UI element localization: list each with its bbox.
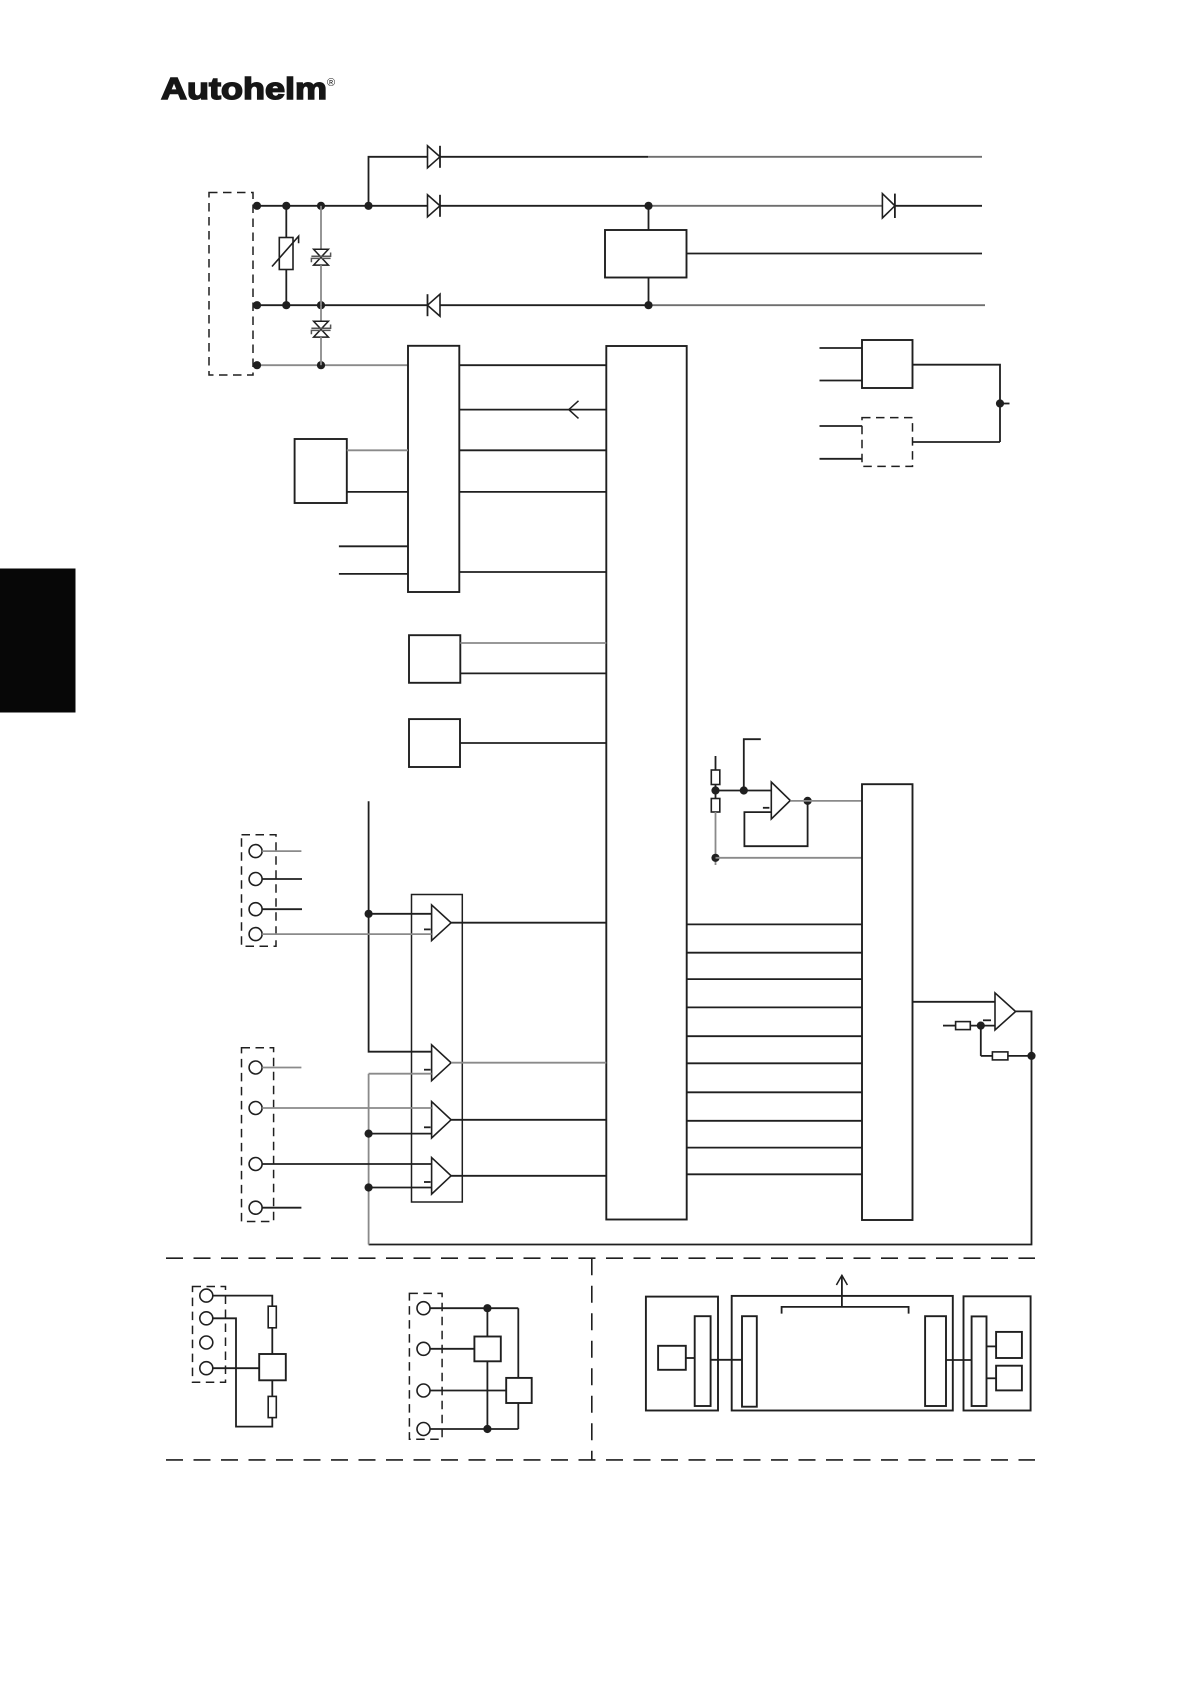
IC U2 interface block [408,346,459,592]
wire divider to A1 [716,790,772,792]
wire R6 loop to J4-2 [213,1318,272,1426]
node V2 dot b [365,1183,373,1191]
wire J3-3 to B4 [262,1163,432,1165]
node rail dot [711,854,719,862]
label A1 minus [763,807,770,809]
wire A2 output down [369,1011,1032,1244]
separator top (dashed) [166,1257,1035,1259]
wire B3 output [451,1119,606,1121]
box Y1 clock [409,635,460,683]
buffer B3 [432,1102,452,1138]
bracket drive span [782,1307,909,1314]
box M3 inner coil [972,1316,987,1406]
wire A1 feedback [744,801,807,846]
resistor R1 [711,770,720,785]
label B3 minus [424,1126,431,1128]
node J5 bottom dot [483,1425,491,1433]
wire B4 inv input [369,1187,432,1189]
wire row3 rail [257,304,985,306]
IC U5 driver block [862,784,913,1220]
box U4 (dashed, optional) [862,418,913,467]
wire rail to U5 [716,857,863,859]
pin J5-4 [417,1423,430,1436]
node V1 dot [365,910,373,918]
suppressor Z1 [311,206,330,305]
wire M3 int a [987,1345,997,1347]
wire B7 down [517,1403,519,1429]
wire J4-4 to B5 [213,1367,259,1369]
node row4 zener dot [317,361,325,369]
svg-text:Autohelm: Autohelm [161,71,327,106]
pin J5-1 [417,1302,430,1315]
wire R4 to output [1008,1055,1032,1057]
wire B4 output [451,1175,606,1177]
wire R1 top stub [715,756,717,770]
resistor R5 [268,1306,276,1328]
wire J2-3 stub [262,908,302,910]
wire R1-R2 [715,785,717,799]
comparator A2 [995,993,1016,1030]
connector J1 (power input, dashed) [209,193,253,376]
connector J3 (dashed) [242,1048,274,1222]
box Y2 [409,719,460,767]
wire U4 in b [820,458,863,460]
box M1 inner square [658,1346,686,1370]
wire K1 bottom [648,278,650,306]
wire R3 to A2 [970,1025,995,1027]
box M3 gear unit [964,1296,1031,1410]
wire down to B6 [486,1308,488,1336]
label B1 minus [424,928,431,930]
label B2 minus [424,1069,431,1071]
wire Y1 a [460,642,606,644]
wire J5-4 bottom [430,1428,518,1430]
connector J4 (dashed) [193,1287,226,1383]
black side tab [0,569,76,713]
wire to R4 [981,1055,993,1057]
wire B3 inv input [369,1133,432,1135]
Autohelm logo [161,71,335,106]
pin J4-1 [200,1289,213,1302]
wire M1 to M2 [711,1359,742,1361]
buffer B4 [432,1158,452,1195]
node row3 dots [253,301,653,309]
wire J5-2 to B6 [430,1348,474,1350]
crystal X1 [295,439,347,503]
node divider dot [711,786,719,794]
box B5 sensor [259,1354,286,1380]
buffer B2 [432,1045,452,1081]
wire A2 inv input [943,1025,956,1027]
label B4 minus [424,1181,431,1183]
wire stub NMEA b [339,573,408,575]
wire U3 in a [820,347,863,349]
diode D1 [428,146,441,168]
suppressor Z2 [311,305,330,365]
bus U1-U5 [687,924,862,1174]
wire U2-U1 b with arrow [459,401,606,419]
box M1 clutch unit [646,1297,718,1411]
wire J3-2 to B3 [262,1107,432,1109]
wire Y2 out [460,742,606,744]
wire J5-3 to B7 [430,1390,506,1392]
wire stub NMEA a [339,545,408,547]
pin J4-2 [200,1312,213,1325]
wire M2 to M3 [946,1359,972,1361]
pin J5-2 [417,1342,430,1355]
svg-text:®: ® [327,77,335,89]
node A1 input dot [740,786,748,794]
wire K1 top [648,206,650,230]
wire X1 b [347,491,408,493]
wire J2-1 stub [262,850,301,852]
wire U2-U1 e [459,571,606,573]
wire R2 down [715,812,717,865]
wire J3-4 stub [262,1207,301,1209]
wire row2 supply rail [257,205,982,207]
diode D2 [428,195,441,217]
wire J3-1 stub [262,1067,301,1069]
pin J2-1 [249,845,262,858]
pin J3-2 [249,1102,262,1115]
node A2 inv dot [977,1022,985,1030]
varistor RV1 [272,206,299,305]
IC U1 microprocessor [606,346,686,1220]
box buffer group [412,895,463,1203]
wire B2 output [451,1062,606,1064]
wire vertical rail V2 [368,1074,370,1245]
wire J5-1 top [430,1307,518,1309]
wire U2-U1 a [459,364,606,366]
wire X1 a [347,449,408,451]
box B6 [474,1337,500,1362]
wire row4 ground rail [257,364,408,366]
resistor R3 [956,1022,971,1030]
node A1 out dot [804,797,812,805]
node J5 top dot [483,1304,491,1312]
wire A1 output [790,800,862,802]
pin J2-4 [249,928,262,941]
wire J2-2 stub [262,878,302,880]
box U3 regulator [862,340,913,388]
pin J3-1 [249,1061,262,1074]
wire R5 to B5 [271,1328,273,1354]
wire U4 in a [820,425,863,427]
relay K1 [605,230,687,278]
wire B5 to R6 [271,1380,273,1396]
wire vertical rail V1 [369,801,432,1051]
pin J4-4 [200,1362,213,1375]
separator vertical (dashed) [591,1258,593,1460]
wire U2-U1 d [459,491,606,493]
wire K1 output [687,253,983,255]
arrow drive shaft [836,1275,847,1307]
pin J3-4 [249,1201,262,1214]
box M2 motor unit [732,1296,953,1411]
node row2 dots [253,202,653,210]
wire J4-1 to R5 [213,1296,272,1307]
pin J5-3 [417,1384,430,1397]
diode D3 [428,294,441,316]
wire B1 output [451,922,606,924]
wire M3 int b [987,1377,997,1379]
label A2 minus [983,1019,991,1021]
wire M1 internal [686,1357,695,1359]
wire B2 inv input [369,1073,432,1075]
wire J2-4 to B1 [262,933,432,935]
wire V1 to B1 [369,913,432,915]
box M1 inner coil [695,1316,711,1406]
wire U2-U1 c [459,449,606,451]
box M3 square a [996,1332,1022,1358]
resistor R6 [268,1396,276,1417]
wire flag up [744,739,761,790]
wire inv down [980,1026,982,1056]
box M2 coil left [742,1316,757,1407]
resistor R4 [992,1052,1008,1060]
wire U4 output [913,441,1001,443]
node row4 dot [253,361,261,369]
node U3 out dot [996,399,1004,407]
pin J2-2 [249,873,262,886]
wire Y1 b [460,672,606,674]
node V2 dot a [365,1130,373,1138]
box M3 square b [996,1366,1022,1391]
diode D4 [882,194,895,218]
connector J5 (dashed) [409,1293,442,1439]
pin J4-3 [200,1336,213,1349]
resistor R2 [711,799,720,813]
wire U5 to A2 [913,1001,996,1003]
wire row1 +12V feed [369,157,983,206]
pin J2-3 [249,903,262,916]
node feedback dot [1027,1052,1035,1060]
wire B6 down [486,1361,488,1429]
connector J2 (dashed) [242,835,277,947]
box M2 coil right [925,1316,946,1406]
box B7 [506,1378,532,1403]
separator bottom (dashed) [166,1459,1035,1461]
op-amp A1 [771,782,790,819]
wire right branch down [517,1308,519,1378]
wire U3 in b [820,380,863,382]
wire U3 output [913,365,1001,442]
buffer B1 [432,905,452,941]
wire stub at node [1000,403,1010,405]
pin J3-3 [249,1158,262,1171]
